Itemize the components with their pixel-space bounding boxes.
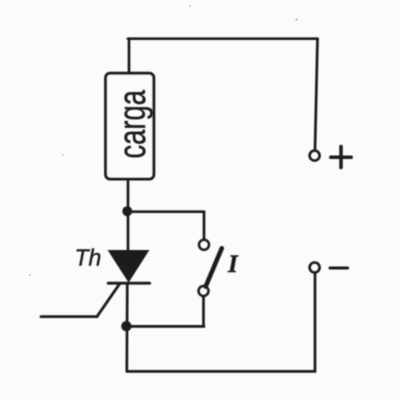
switch I: lower contact circle [199, 286, 209, 296]
switch I: blade (open) [206, 248, 222, 286]
wire: below lower switch contact [202, 296, 205, 326]
wire: switch branch bottom horizontal [126, 325, 204, 328]
terminal + circle [310, 151, 320, 161]
terminal - circle [310, 263, 320, 273]
thyristor Th: gate diagonal lead [97, 284, 120, 317]
wire: top horizontal rail [128, 37, 318, 40]
thyristor Th: anode triangle [109, 251, 148, 281]
- polarity symbol [330, 267, 348, 270]
wire: right vertical up to - terminal [314, 273, 317, 371]
wire: load box bottom to thyristor anode [127, 179, 130, 251]
svg-text:Th: Th [75, 245, 102, 271]
wire: cathode down to bottom rail [125, 283, 128, 371]
wire: vertical from top of load box up to top rail [128, 39, 131, 74]
+ polarity symbol [331, 147, 351, 168]
thyristor Th: cathode bar [108, 282, 149, 285]
wire: switch branch top horizontal [127, 210, 204, 213]
node: junction dot (anode / switch branch) [122, 206, 132, 216]
svg-text:carga: carga [112, 90, 154, 159]
node: junction dot (cathode / switch branch) [121, 321, 131, 331]
thyristor Th: gate horizontal lead [41, 315, 97, 318]
faint scan specks [29, 5, 298, 276]
svg-text:I: I [227, 251, 239, 278]
wire: bottom horizontal rail [127, 370, 315, 373]
wire: right vertical drop to + terminal [315, 39, 318, 150]
wire: down to upper switch contact [203, 212, 206, 240]
switch I: upper contact circle [199, 240, 209, 250]
load box (carga) [106, 73, 154, 179]
